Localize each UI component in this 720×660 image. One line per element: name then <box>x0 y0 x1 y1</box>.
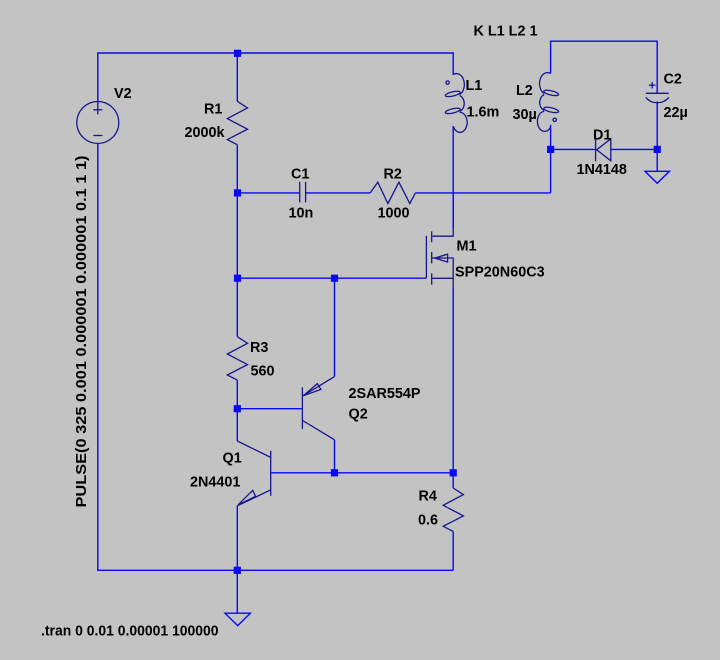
transistor Q1 <box>237 441 271 506</box>
wire Q2 emitter vertical <box>334 278 336 376</box>
node junction C1 row <box>234 189 241 196</box>
ground right <box>645 171 669 183</box>
svg-text:K L1 L2 1: K L1 L2 1 <box>474 24 538 40</box>
svg-text:0.6: 0.6 <box>418 513 438 529</box>
wire secondary top rail <box>551 41 658 93</box>
wire L1 bottom to drain row <box>452 126 454 228</box>
resistor R4 <box>443 488 463 531</box>
svg-text:22µ: 22µ <box>664 105 688 121</box>
wire M1 source vertical <box>452 288 454 473</box>
capacitor C2 <box>646 82 669 103</box>
wire R3 bottom lead <box>236 380 238 441</box>
wire D1 cathode lead <box>551 148 596 150</box>
wire top rail from V2 to L1 <box>98 53 453 102</box>
wire C2 bottom lead <box>656 102 658 150</box>
svg-text:SPP20N60C3: SPP20N60C3 <box>455 265 545 281</box>
svg-text:2SAR554P: 2SAR554P <box>349 386 421 402</box>
diode D1 <box>596 139 611 162</box>
svg-text:Q2: Q2 <box>349 407 368 423</box>
wire ground stub bottom <box>236 570 238 613</box>
wire R4 bottom lead <box>452 531 454 570</box>
wire R4 leads <box>452 473 454 488</box>
svg-text:10n: 10n <box>289 206 314 222</box>
wire gate row <box>237 277 420 279</box>
node junction L2 bottom / D1 <box>547 146 554 153</box>
wire L2 bottom lead <box>550 125 552 193</box>
capacitor C1 <box>300 182 306 203</box>
wire V2 bottom to ground rail <box>98 144 453 571</box>
svg-text:1N4148: 1N4148 <box>577 162 627 178</box>
node junction R4 top <box>450 469 457 476</box>
wire D1 anode lead <box>611 148 657 150</box>
wire R2 to secondary bottom <box>415 192 550 194</box>
node junction C2 bottom <box>654 146 661 153</box>
wire Q2 base lead <box>237 408 302 410</box>
node junction ground rail <box>234 567 241 574</box>
wire to ground right <box>656 149 658 171</box>
inductor L1 <box>445 74 467 133</box>
voltage source V2 <box>77 101 119 143</box>
resistor R1 <box>227 101 247 144</box>
svg-text:R1: R1 <box>204 102 222 118</box>
svg-text:R3: R3 <box>250 340 268 356</box>
resistor R3 <box>227 337 247 380</box>
inductor L2 <box>537 73 559 132</box>
node junction gate row <box>234 275 241 282</box>
ground bottom <box>225 613 250 625</box>
svg-text:PULSE(0 325 0.001 0.000001 0.0: PULSE(0 325 0.001 0.000001 0.000001 0.1 … <box>74 155 90 507</box>
wire C1 left lead <box>237 192 299 194</box>
svg-text:V2: V2 <box>114 86 132 102</box>
svg-text:L2: L2 <box>516 83 533 99</box>
transistor Q2 <box>302 377 334 440</box>
svg-text:M1: M1 <box>457 239 477 255</box>
node junction gate row Q2 emitter <box>331 275 338 282</box>
wire Q2 collector vertical <box>334 440 336 473</box>
svg-text:30µ: 30µ <box>513 107 537 123</box>
svg-text:1000: 1000 <box>378 206 410 222</box>
svg-text:C2: C2 <box>664 72 682 88</box>
svg-text:2000k: 2000k <box>185 125 226 141</box>
svg-text:Q1: Q1 <box>223 451 242 467</box>
wire Q1 base row to R4 <box>271 472 454 474</box>
resistor R2 <box>370 182 415 203</box>
svg-text:R2: R2 <box>384 167 402 183</box>
wire middle column R1 to R3 <box>236 145 238 337</box>
node junction top of R1 <box>234 50 241 57</box>
svg-text:C1: C1 <box>291 167 309 183</box>
wire drain column <box>452 193 454 228</box>
svg-text:L1: L1 <box>466 78 483 94</box>
svg-text:2N4401: 2N4401 <box>190 475 240 491</box>
svg-text:D1: D1 <box>593 127 611 143</box>
node junction R3 bottom / Q2 base <box>234 405 241 412</box>
svg-text:560: 560 <box>251 364 275 380</box>
svg-text:R4: R4 <box>419 489 437 505</box>
wire Q1 emitter vertical <box>236 506 238 571</box>
wire C1 to R2 <box>306 192 371 194</box>
wire R1 top lead <box>236 53 238 101</box>
mosfet M1 <box>420 225 453 290</box>
node junction Q2 collector / Q1 base <box>331 469 338 476</box>
svg-text:1.6m: 1.6m <box>467 105 500 121</box>
svg-text:.tran 0 0.01 0.00001 100000: .tran 0 0.01 0.00001 100000 <box>41 624 219 640</box>
